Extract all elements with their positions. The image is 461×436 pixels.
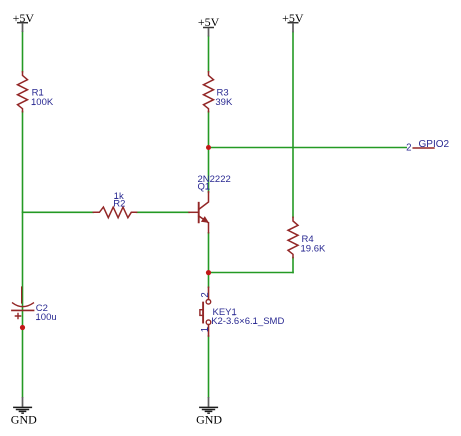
svg-text:+5V: +5V	[198, 15, 220, 29]
svg-text:39K: 39K	[215, 97, 233, 108]
svg-text:19.6K: 19.6K	[301, 244, 326, 255]
svg-text:+5V: +5V	[282, 11, 304, 25]
svg-text:+5V: +5V	[13, 11, 35, 25]
svg-text:GND: GND	[196, 412, 222, 426]
svg-text:GPIO2: GPIO2	[419, 139, 450, 150]
svg-text:GND: GND	[11, 412, 37, 426]
svg-text:100u: 100u	[36, 312, 57, 323]
svg-text:100K: 100K	[31, 97, 54, 108]
svg-text:Q1: Q1	[198, 182, 211, 193]
svg-text:2: 2	[200, 292, 211, 297]
svg-text:2: 2	[406, 143, 411, 154]
svg-text:K2-3.6×6.1_SMD: K2-3.6×6.1_SMD	[211, 316, 284, 327]
svg-text:R2: R2	[113, 198, 125, 209]
svg-text:1: 1	[200, 327, 211, 332]
